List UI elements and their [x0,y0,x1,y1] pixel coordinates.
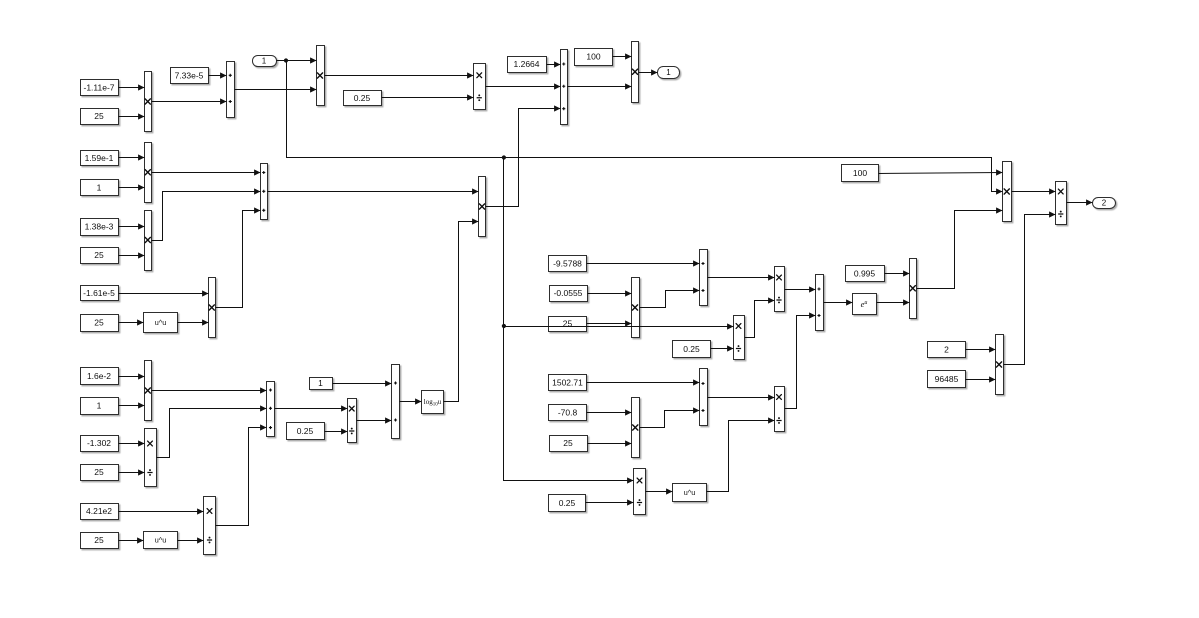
constant 7.33e-5 [171,68,209,84]
wire 0.25b to D3 [325,428,348,434]
constant 100 b [842,165,879,182]
constant 2 [928,342,966,358]
svg-text:-1.11e-7: -1.11e-7 [83,82,114,92]
constant 0.25 c [673,341,711,358]
svg-text:1.38e-3: 1.38e-3 [85,222,114,232]
wire 1c to S5 [333,380,392,386]
wire branch to DB [504,323,734,329]
svg-text:-0.0555: -0.0555 [554,288,583,298]
wire eu to PG [877,299,910,305]
constant -70.8 [549,405,587,421]
product PG [910,259,917,319]
constant 25 c [81,315,119,332]
constant 25 d [81,465,119,481]
constant 25 b [81,248,119,264]
junction inport branch [284,58,288,62]
divide D3 [348,399,357,443]
wire 1b to P8 [119,402,145,408]
wire 7.33e-5 to S1 [209,72,227,78]
sum S4 [267,382,275,437]
wire 1.59e-1 to P3 [119,154,145,160]
outport 2 [1093,198,1116,209]
wire -1.302 to D2 [119,440,145,446]
math e^u U2 [853,294,877,315]
constant -9.5788 [549,256,587,272]
wire P2 to D1 [325,72,474,78]
wire 25a to P1 [119,113,145,119]
divide P9 [204,497,216,555]
product P3 [145,143,152,203]
sum S5 [392,365,400,439]
wire 4.21e2 to P9 [119,508,204,514]
math u^u 3 [673,484,707,502]
svg-text:25: 25 [94,111,104,121]
wire DB to DC [745,297,775,337]
svg-text:u^u: u^u [155,318,167,327]
inport 1 [253,56,277,67]
wire P4 to outport1 [639,69,658,75]
wire P1 to S1 [152,98,227,104]
svg-text:4.21e2: 4.21e2 [86,506,112,516]
wire 25c to uu1 [119,319,144,325]
divide D2 [145,429,157,487]
divide DB [734,316,745,360]
wire DI to outport2 [1067,199,1093,205]
constant 0.995 [846,266,885,282]
svg-text:25: 25 [94,467,104,477]
constant 1.38e-3 [81,219,119,236]
svg-text:-1.302: -1.302 [87,438,111,448]
wire -9.5788 to S6 [587,260,700,266]
wire -1.61e-5 to P6 [119,290,209,296]
svg-text:1.2664: 1.2664 [514,59,540,69]
svg-text:25: 25 [94,318,104,328]
product P8 [145,361,152,421]
svg-text:0.25: 0.25 [559,498,576,508]
wire PD to S7 [640,407,700,427]
wire S7 to DE [708,394,775,400]
product P6 [209,278,216,338]
constant 96485 [928,371,966,388]
wire inport1 branch to PH [287,61,1003,195]
wire 1502.71 to S7 [587,379,700,385]
svg-text:0.995: 0.995 [854,269,876,279]
wire 0.25a to D1 [382,94,474,100]
product P4 [632,42,639,103]
svg-text:1.6e-2: 1.6e-2 [87,371,111,381]
constant 0.25 a [344,91,382,106]
svg-text:1502.71: 1502.71 [552,378,583,388]
product PA [632,278,640,338]
svg-text:u^u: u^u [155,535,167,544]
wire branch down to DF [504,158,634,484]
divide DE [775,387,785,432]
wire PH to DI [1012,188,1056,194]
wire S8 to eu [824,299,853,305]
svg-text:1: 1 [97,183,102,193]
svg-text:96485: 96485 [935,374,959,384]
constant 1 c [310,378,333,390]
wire S3 to P4 [568,83,632,89]
wire P9 to S4 [216,424,267,525]
divide DF [634,469,646,515]
svg-text:2: 2 [1102,199,1107,208]
math log10 U1 [422,391,444,414]
wire 0.995 to PG [885,270,910,276]
wire 25g to PD [588,440,632,446]
constant 0.25 d [549,495,586,512]
math u^u 1 [144,313,178,333]
wire S2 to P7 [268,188,479,194]
wire PA to S6 [640,287,700,307]
outport 1 [658,67,680,79]
sum S8 [816,275,824,331]
math u^u 2 [144,532,178,549]
svg-text:2: 2 [944,344,949,354]
wire PJ to DI [1004,211,1056,364]
svg-text:25: 25 [94,535,104,545]
wire 25b to P5 [119,252,145,258]
constant 1 b [81,398,119,415]
wire log10 to P7 [444,218,479,401]
wire 0.25d to DF [586,499,634,505]
constant 1.59e-1 [81,151,119,166]
wire S5 to log10 [400,398,422,404]
svg-text:100: 100 [853,168,867,178]
constant -1.302 [81,436,119,452]
wire S4 to D3 [275,405,348,411]
wire S1 to P2 [235,86,317,92]
divide DI [1056,182,1067,225]
wire -1.11e-7 to P1 [119,84,145,90]
wire P3 to S2 [152,169,261,175]
wire 25e to uu2 [119,537,144,543]
product PJ [996,335,1004,395]
sum S6 [700,250,708,306]
product P7 [479,177,486,237]
wire 25f to PA [587,320,632,326]
divide DC [775,267,785,312]
svg-text:0.25: 0.25 [354,93,371,103]
wire 0.25c to DB [711,345,734,351]
wire 1.6e-2 to P8 [119,373,145,379]
constant 0.25 b [287,423,325,440]
svg-text:-70.8: -70.8 [558,408,578,418]
product PH [1003,162,1012,222]
svg-text:1: 1 [666,68,671,77]
wire D1 to S3 [486,83,561,89]
wire -0.0555 to PA [588,290,632,296]
constant 1.2664 [508,57,547,73]
sum S2 [261,164,268,220]
constant -0.0555 [550,286,588,302]
wire uu2 to P9 [178,537,204,543]
wire DF to uu3 [646,488,673,494]
svg-text:100: 100 [586,52,600,62]
svg-text:u^u: u^u [684,488,696,497]
wire 100a to P4 [613,53,632,59]
wire P8 to S4 [152,387,267,393]
wire inport1 to P2 [277,57,317,63]
sum S3 [561,50,568,125]
sum S7 [700,369,708,426]
constant 25 g [550,436,588,452]
divide D1 [474,64,486,110]
constant 4.21e2 [81,504,119,520]
constant 25 a [81,109,119,125]
product P2 [317,46,325,106]
wire 1.38e-3 to P5 [119,223,145,229]
svg-text:1: 1 [97,401,102,411]
svg-text:-1.61e-5: -1.61e-5 [83,288,115,298]
constant 25 f [549,317,587,332]
svg-text:1: 1 [318,378,323,388]
wire 25d to D2 [119,469,145,475]
constant 1 a [81,180,119,196]
wire DC to S8 [785,286,816,292]
wire P6 to S2 [216,207,261,307]
constant 100 a [575,49,613,66]
svg-text:25: 25 [563,438,573,448]
svg-text:0.25: 0.25 [297,426,314,436]
constant -1.11e-7 [81,80,119,96]
constant 25 e [81,533,119,549]
wire -70.8 to PD [587,409,632,415]
svg-text:1: 1 [262,57,267,66]
wire 100b to PH [879,169,1003,175]
constant -1.61e-5 [81,286,119,301]
wire 1.2664 to S3 [547,61,561,67]
product P5 [145,211,152,271]
wire P7 to S3 [486,105,561,206]
wire D3 to S5 [357,417,392,423]
wire D2 to S4 [157,405,267,457]
wire uu1 to P6 [178,319,209,325]
constant 1502.71 [549,375,587,391]
junction to DB [502,324,506,328]
product PD [632,398,640,458]
wire P5 to S2 [152,188,261,240]
wire S6 to DC [708,274,775,280]
wire 96485 to PJ [966,376,996,382]
svg-text:1.59e-1: 1.59e-1 [85,153,114,163]
wire 1a to P3 [119,184,145,190]
wire 2 to PJ [966,346,996,352]
product P1 [145,72,152,132]
svg-text:0.25: 0.25 [683,344,700,354]
junction long vertical [502,155,506,159]
constant 1.6e-2 [81,368,119,385]
svg-text:7.33e-5: 7.33e-5 [175,71,204,81]
sum S1 [227,62,235,118]
wire PG to PH [917,207,1003,288]
wire uu3 to DE [707,417,775,491]
svg-text:-9.5788: -9.5788 [553,258,582,268]
svg-text:25: 25 [94,250,104,260]
wire DE to S8 [785,312,816,408]
